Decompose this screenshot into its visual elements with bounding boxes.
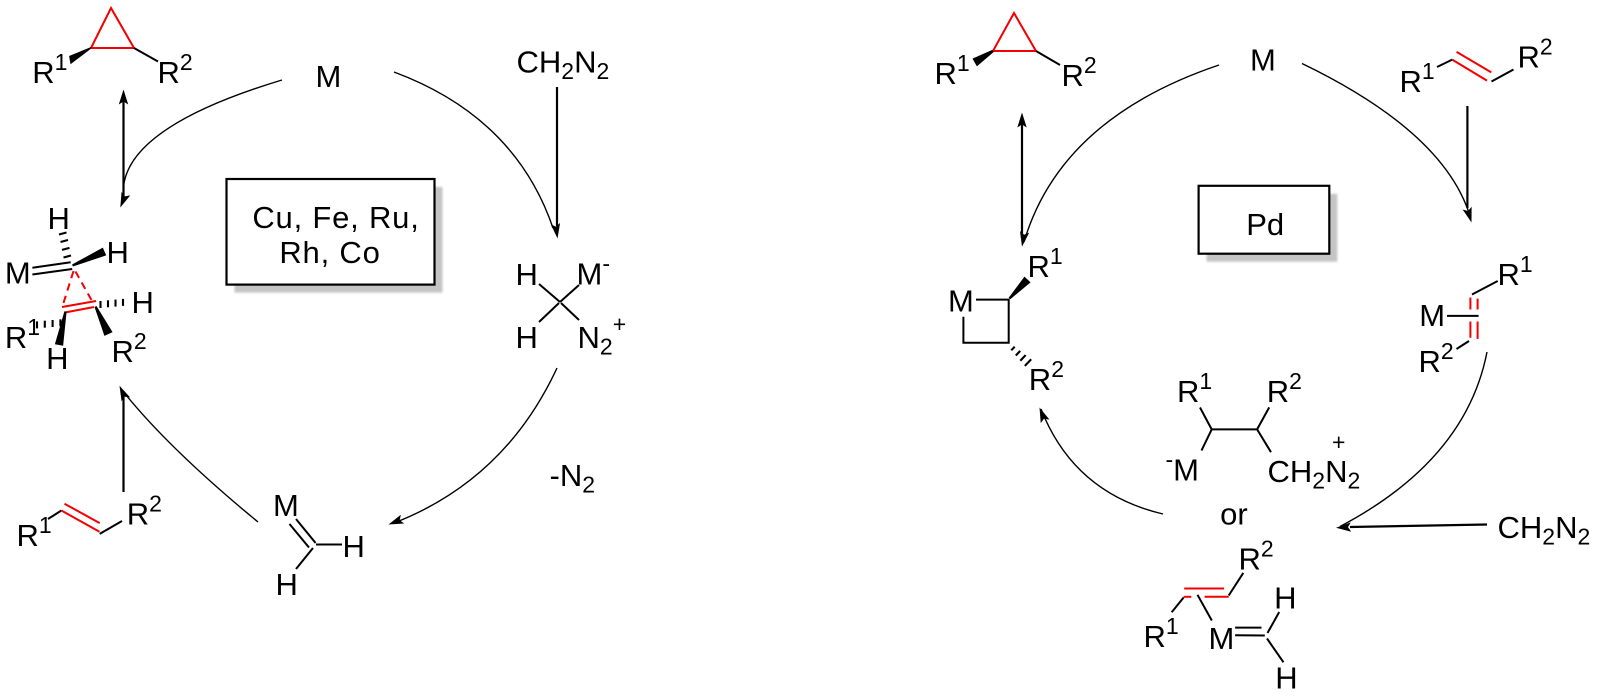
plain bond ring to R2 (left product) — [134, 48, 158, 62]
central adduct bond R1-C1 — [1200, 408, 1212, 430]
svg-text:H: H — [1275, 661, 1297, 696]
curved arrow from M down-left (right cycle arc) — [1024, 65, 1219, 242]
svg-text:H: H — [48, 201, 70, 236]
carbene bond C-H right — [316, 544, 342, 546]
double-headed vertical arrow metallacycle <-> product (right) — [1021, 122, 1023, 238]
alkene bond R1-C1 (right top) — [1437, 60, 1453, 68]
adduct bond C-N2 — [561, 303, 579, 320]
bottom structure bond alkene-M — [1198, 595, 1212, 621]
alkene bond R1-C1 — [48, 511, 61, 520]
bottom structure red double bond C1=C2 — [1184, 588, 1224, 590]
svg-text:H: H — [343, 529, 365, 564]
svg-text:Rh, Co: Rh, Co — [279, 235, 380, 270]
central adduct bond C1-M — [1202, 429, 1212, 450]
TS hashed bond H to carbene C — [59, 233, 67, 235]
curved arrow complex down to CH2N2 junction (right cycle arc) — [1340, 352, 1487, 527]
eta2 complex bond M to alkene — [1447, 315, 1479, 317]
bold wedge bond ring to R1 (left product) — [69, 47, 92, 64]
carbene bond C-H lower-left — [296, 548, 313, 569]
curved arrow junction up to metallacyclobutane (right cycle arc) — [1041, 409, 1163, 514]
bold wedge bond ring to R1 (right product) — [973, 50, 994, 67]
alkene red double bond C1=C2 — [61, 511, 99, 532]
svg-text:Cu, Fe, Ru,: Cu, Fe, Ru, — [252, 200, 419, 235]
svg-text:H: H — [132, 285, 154, 320]
adduct bond C-M — [560, 285, 579, 302]
adduct H2C(M-)(N2+): bond C-H top-left — [539, 284, 560, 302]
svg-text:M: M — [5, 255, 31, 290]
double-headed vertical arrow TS <-> product (left) — [122, 98, 124, 200]
straight arrow CH2N2 down to adduct — [556, 87, 558, 226]
curved arrow carbene up-left to TS (left cycle arc) — [122, 390, 258, 522]
svg-text:H: H — [516, 320, 538, 355]
svg-text:M: M — [1250, 43, 1276, 78]
adduct bond C-H bottom-left — [539, 303, 559, 322]
bottom structure bond R2-C2 — [1229, 573, 1244, 596]
svg-text:H: H — [46, 341, 68, 376]
metallacyclobutane hashed bond to R2 — [1011, 347, 1014, 351]
bottom structure M=C double bond — [1235, 627, 1261, 629]
straight arrow alkene down to complex (right) — [1466, 106, 1468, 208]
TS M=C double bond — [32, 262, 70, 268]
svg-text:+: + — [1332, 429, 1345, 455]
TS bold wedge left alkene C to H (below) — [55, 311, 67, 346]
TS hashed bond right alkene C to H (right) — [99, 301, 101, 308]
svg-text:M: M — [948, 283, 974, 318]
alkene bond C2-R2 (right top) — [1492, 70, 1514, 82]
catalyst box shadow (left) — [235, 187, 443, 293]
curved arrow from M down-right to complex (right cycle arc) — [1302, 64, 1470, 217]
curved arrow adduct down to carbene (left cycle arc) — [394, 368, 557, 523]
central adduct bond C2-R2 — [1257, 407, 1269, 429]
metallacyclobutane bold wedge to R1 — [1009, 277, 1031, 300]
metallacyclobutane ring — [963, 300, 1008, 343]
bottom structure bond C1-R1 — [1172, 598, 1184, 613]
TS red alkene double bond — [62, 301, 96, 307]
central adduct bond C2-CH2N2 — [1257, 429, 1271, 452]
bottom structure bond C-H top — [1268, 612, 1280, 633]
cyclopropane product ring (left, red) — [91, 8, 134, 48]
Pd box — [1199, 186, 1330, 254]
svg-text:H: H — [107, 235, 129, 270]
svg-text:H: H — [516, 257, 538, 292]
eta2 complex red double bond C1=C2 (vertical) — [1469, 298, 1471, 310]
curved arrow from M down-right to adduct (left cycle arc) — [394, 72, 553, 228]
TS bold wedge C to H (right) — [72, 248, 106, 267]
TS red dashed partial bond C to right alkene carbon — [76, 272, 92, 301]
svg-text:H: H — [1274, 581, 1296, 616]
carbene M=C double bond — [296, 519, 316, 543]
alkene bond C2-R2 — [100, 521, 122, 534]
straight arrow alkene up to TS (left) — [122, 391, 124, 492]
svg-text:M: M — [273, 488, 299, 523]
plain bond ring to R2 (right product) — [1036, 51, 1060, 65]
svg-text:M: M — [316, 59, 342, 94]
central adduct bond C1-C2 — [1212, 428, 1257, 430]
Pd box shadow — [1207, 194, 1338, 262]
TS red dashed partial bond C to left alkene carbon — [64, 271, 74, 303]
eta2 complex bond R1-C1 — [1472, 281, 1498, 295]
bottom structure bond C-H bottom — [1267, 639, 1284, 663]
eta2 complex bond C2-R2 — [1457, 341, 1470, 349]
alkene red double bond (right top) — [1453, 60, 1487, 81]
curved arrow from M down-left to TS (left cycle arc) — [123, 80, 282, 198]
svg-text:M: M — [1209, 621, 1235, 656]
TS bold wedge right alkene C to R2 — [95, 306, 113, 336]
svg-text:Pd: Pd — [1246, 207, 1284, 242]
svg-text:or: or — [1220, 497, 1248, 532]
svg-text:H: H — [276, 567, 298, 602]
svg-text:M: M — [1419, 298, 1445, 333]
straight arrow CH2N2 to junction (right) — [1350, 525, 1487, 528]
catalyst box (left) — [227, 179, 435, 285]
TS hashed bond left alkene C to R1 — [36, 321, 38, 328]
cyclopropane product ring (right, red) — [993, 13, 1036, 51]
